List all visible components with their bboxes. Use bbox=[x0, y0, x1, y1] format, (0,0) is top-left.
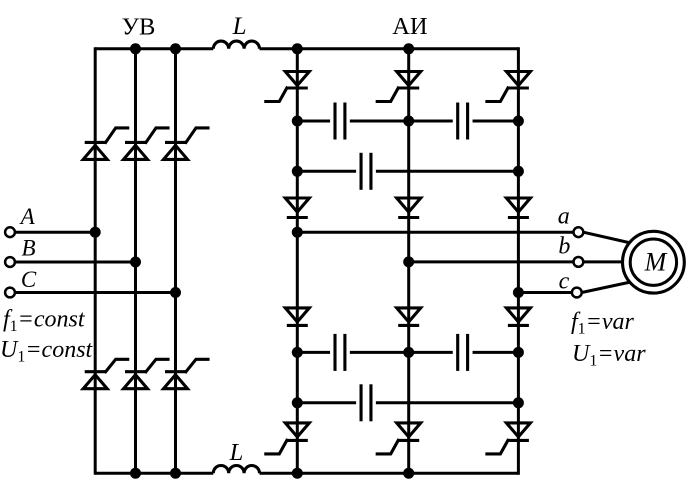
capacitor C1 bbox=[335, 103, 345, 140]
junction bottom bus / inv leg 2 bbox=[403, 468, 414, 479]
terminal B bbox=[5, 257, 15, 267]
svg-text:U1=const: U1=const bbox=[0, 337, 94, 366]
thyristor VS9 (inverter top, leg 3) bbox=[487, 72, 531, 102]
thyristor VS10 (inverter bottom, leg 1) bbox=[266, 423, 310, 454]
thyristor VS4 (rectifier bottom, leg 1) bbox=[83, 359, 128, 388]
junction output c / inv leg 3 bbox=[513, 287, 524, 298]
junction top bus / rect leg 3 bbox=[170, 43, 181, 54]
thyristor VS11 (inverter bottom, leg 2) bbox=[377, 423, 421, 454]
svg-text:c: c bbox=[559, 268, 570, 294]
wire rectifier leg 2 vertical bbox=[134, 49, 137, 473]
wire phase C input bbox=[15, 291, 176, 294]
junction cap row4 / inv leg 3 bbox=[513, 397, 524, 408]
wire cap row4 right (C6 to node 6) bbox=[376, 401, 519, 404]
thyristor VS1 (rectifier top, leg 1) bbox=[83, 128, 128, 159]
terminal b bbox=[574, 257, 584, 267]
wire cap row1 mid (C1 to node 2) bbox=[350, 120, 409, 123]
label c bbox=[559, 268, 570, 294]
junction phase B / rect leg 2 bbox=[130, 257, 141, 268]
label L top bbox=[232, 13, 247, 40]
junction top bus / inv leg 1 bbox=[292, 43, 303, 54]
wire inverter leg 1 vertical bbox=[296, 49, 299, 473]
terminal C bbox=[5, 288, 15, 298]
junction top bus / rect leg 2 bbox=[130, 43, 141, 54]
label U1=var bbox=[572, 341, 646, 370]
svg-text:УВ: УВ bbox=[122, 14, 156, 41]
inductor L1 (top DC link choke) bbox=[213, 41, 259, 49]
wire output phase c bbox=[518, 291, 572, 294]
wire top DC bus right segment bbox=[260, 47, 519, 50]
svg-text:M: M bbox=[644, 248, 668, 277]
label A bbox=[19, 204, 36, 229]
svg-text:b: b bbox=[558, 233, 570, 259]
wire rectifier leg 3 vertical bbox=[174, 49, 177, 473]
wire rectifier leg 1 vertical bbox=[94, 47, 97, 474]
junction cap row2 / inv leg 1 bbox=[292, 166, 303, 177]
junction bottom bus / rect leg 3 bbox=[170, 468, 181, 479]
label U1=const bbox=[0, 337, 94, 366]
junction bottom bus / inv leg 1 bbox=[292, 468, 303, 479]
capacitor C6 bbox=[361, 384, 371, 421]
label b bbox=[558, 233, 570, 259]
thyristor VS5 (rectifier bottom, leg 2) bbox=[124, 359, 169, 388]
junction cap row1 / inv leg 3 bbox=[513, 116, 524, 127]
diode VD2 (inverter top, leg 2) bbox=[397, 198, 421, 218]
wire cap row1 left (node 1 to C1) bbox=[297, 120, 330, 123]
junction cap row2 / inv leg 3 bbox=[513, 166, 524, 177]
wire cap row1 right (C2 to node 3) bbox=[473, 120, 519, 123]
terminal A bbox=[5, 227, 15, 237]
svg-text:АИ: АИ bbox=[392, 13, 427, 40]
wire motor lead c bbox=[582, 282, 633, 293]
svg-text:L: L bbox=[229, 439, 244, 466]
diode VD1 (inverter top, leg 1) bbox=[285, 198, 309, 218]
capacitor C2 bbox=[458, 103, 468, 140]
junction cap row4 / inv leg 1 bbox=[292, 397, 303, 408]
junction cap row3 / inv leg 3 bbox=[513, 347, 524, 358]
label f1=var bbox=[571, 309, 635, 338]
svg-text:U1=var: U1=var bbox=[572, 341, 646, 370]
wire inverter leg 3 vertical bbox=[517, 47, 520, 474]
svg-text:a: a bbox=[558, 204, 570, 230]
wire motor lead b bbox=[583, 260, 630, 263]
junction top bus / inv leg 2 bbox=[403, 43, 414, 54]
capacitor C4 bbox=[335, 334, 345, 371]
capacitor C3 bbox=[361, 153, 371, 190]
capacitor C5 bbox=[458, 334, 468, 371]
svg-text:A: A bbox=[19, 204, 36, 229]
wire phase B input bbox=[15, 261, 136, 264]
wire cap row2 left (node 1 to C3) bbox=[297, 170, 356, 173]
junction cap row1 / inv leg 1 bbox=[292, 116, 303, 127]
svg-text:B: B bbox=[21, 235, 35, 260]
junction cap row3 / inv leg 1 bbox=[292, 347, 303, 358]
terminal c bbox=[572, 288, 582, 298]
junction bottom bus / rect leg 2 bbox=[130, 468, 141, 479]
wire motor lead a bbox=[583, 232, 633, 243]
label UV (rectifier block) bbox=[122, 14, 156, 41]
diode VD4 (inverter bottom, leg 1) bbox=[285, 308, 309, 326]
svg-text:L: L bbox=[232, 13, 247, 40]
wire cap row2 right (C3 to node 3) bbox=[376, 170, 519, 173]
wire cap row3 mid (C4 to node 5) bbox=[350, 351, 409, 354]
diode VD5 (inverter bottom, leg 2) bbox=[397, 308, 421, 326]
label AI (inverter block) bbox=[392, 13, 427, 40]
wire bottom DC bus right segment bbox=[260, 472, 519, 475]
junction output b / inv leg 2 bbox=[403, 256, 414, 267]
diode VD6 (inverter bottom, leg 3) bbox=[506, 308, 530, 326]
wire bottom DC bus left segment bbox=[95, 472, 213, 475]
label a bbox=[558, 204, 570, 230]
svg-text:C: C bbox=[21, 267, 37, 292]
wire cap row3 left (node 4 to C4) bbox=[297, 351, 330, 354]
junction cap row3 / inv leg 2 bbox=[403, 347, 414, 358]
terminal a bbox=[574, 227, 584, 237]
junction phase C / rect leg 3 bbox=[170, 287, 181, 298]
thyristor VS6 (rectifier bottom, leg 3) bbox=[164, 359, 209, 388]
thyristor VS7 (inverter top, leg 1) bbox=[266, 72, 310, 102]
thyristor VS12 (inverter bottom, leg 3) bbox=[487, 423, 531, 454]
wire cap row3 mid2 (node 5 to C5) bbox=[409, 351, 453, 354]
wire inverter leg 2 vertical bbox=[407, 49, 410, 473]
wire cap row1 mid2 (node 2 to C2) bbox=[409, 120, 453, 123]
wire cap row4 left (node 4 to C6) bbox=[297, 401, 356, 404]
wire output phase b bbox=[409, 260, 574, 263]
junction cap row1 / inv leg 2 bbox=[403, 116, 414, 127]
label f1=const bbox=[3, 307, 86, 336]
thyristor VS8 (inverter top, leg 2) bbox=[377, 72, 421, 102]
inductor L2 (bottom DC link choke) bbox=[213, 466, 259, 474]
wire phase A input bbox=[15, 231, 95, 234]
label C bbox=[21, 267, 37, 292]
wire cap row3 right (C5 to node 6) bbox=[473, 351, 519, 354]
thyristor VS2 (rectifier top, leg 2) bbox=[124, 128, 169, 159]
wire output phase a bbox=[297, 231, 573, 234]
thyristor VS3 (rectifier top, leg 3) bbox=[164, 128, 209, 159]
label L bottom bbox=[229, 439, 244, 466]
wire top DC bus left segment bbox=[95, 47, 213, 50]
label B bbox=[21, 235, 35, 260]
junction output a / inv leg 1 bbox=[292, 227, 303, 238]
diode VD3 (inverter top, leg 3) bbox=[506, 198, 530, 218]
junction phase A / rect leg 1 bbox=[90, 227, 101, 238]
motor M (induction machine) bbox=[623, 231, 685, 293]
